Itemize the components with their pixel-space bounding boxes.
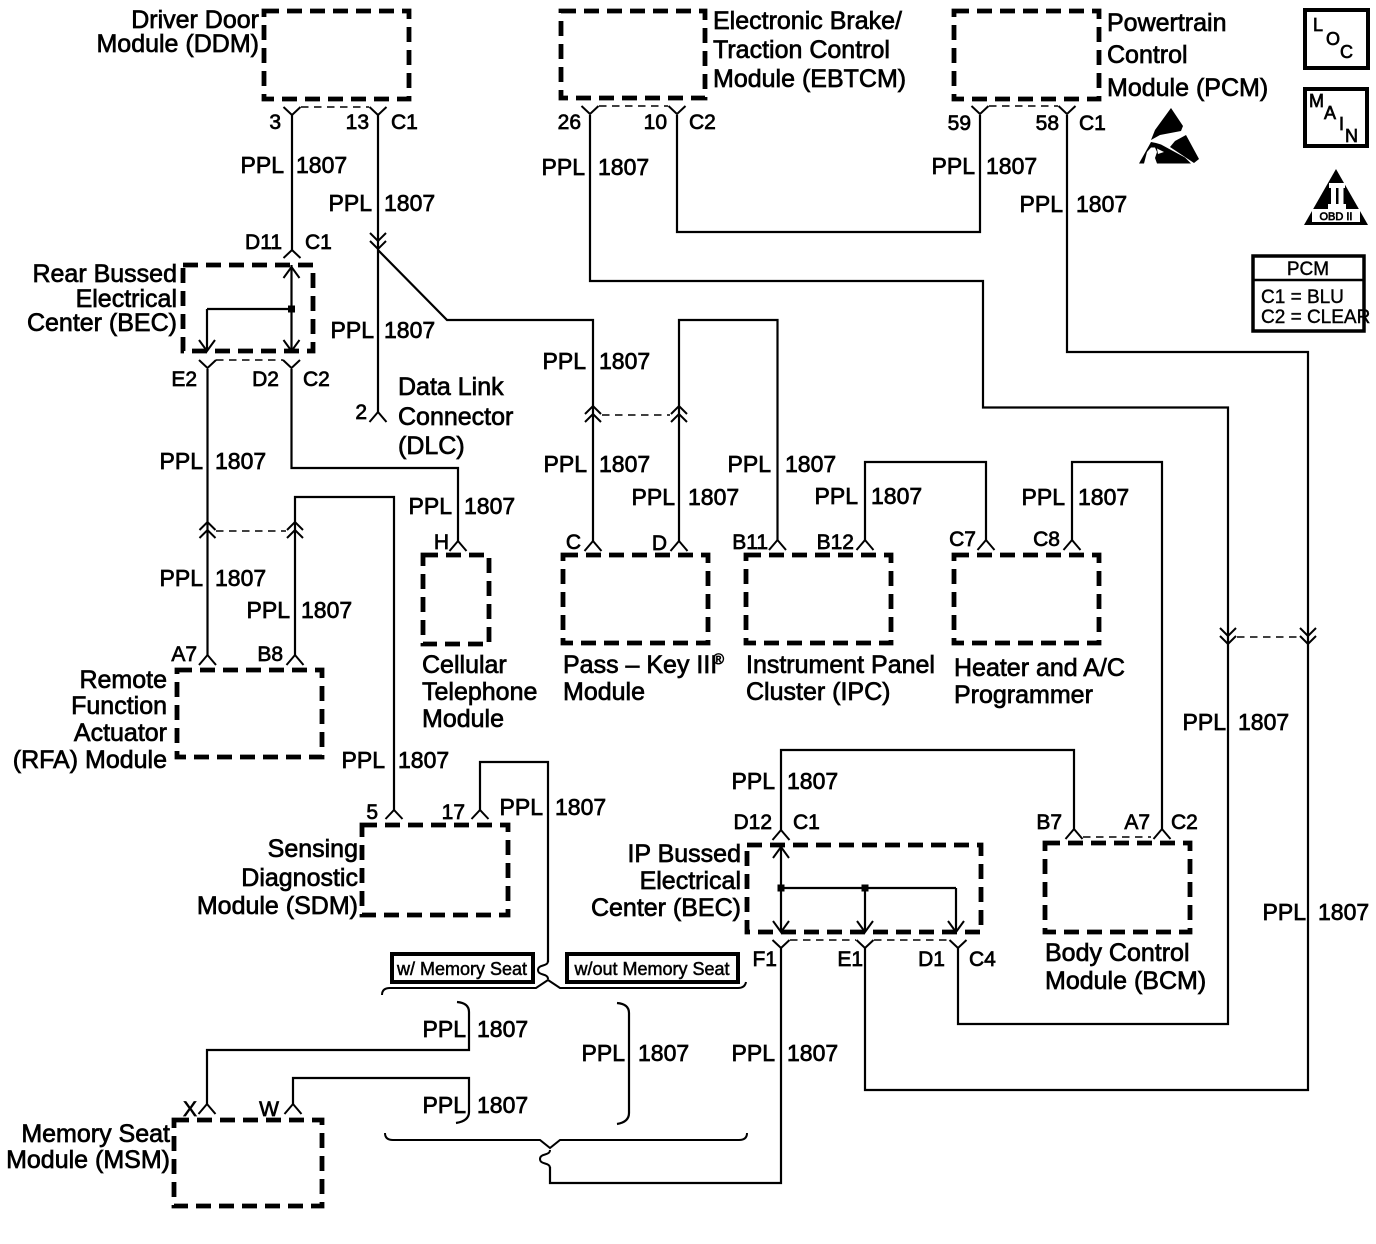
dashed connector line Rear BEC (216, 359, 283, 361)
module MSM box (174, 1120, 322, 1206)
wire Pass-Key D to IPC B11 (679, 320, 778, 541)
connector PCM pin58 (1059, 106, 1076, 114)
connector IP BEC E1 (857, 940, 874, 948)
wire EBTCM pin26 bus to IP BEC D1 (590, 115, 1228, 1024)
junction dot Rear BEC (288, 306, 295, 313)
svg-text:PPL: PPL (815, 483, 859, 509)
brace2 options merge (385, 1133, 747, 1148)
svg-text:(DLC): (DLC) (398, 432, 465, 460)
svg-text:PPL: PPL (732, 1040, 776, 1066)
dashed connector line PCM (989, 105, 1058, 107)
svg-text:Data Link: Data Link (398, 373, 504, 401)
svg-text:D: D (652, 532, 667, 555)
svg-text:D11: D11 (245, 231, 282, 254)
connector PCM pin59 (972, 106, 989, 114)
module Cellular Telephone box (423, 555, 489, 644)
svg-text:E2: E2 (171, 368, 197, 391)
Rear BEC internal bus (290, 265, 292, 351)
svg-text:PPL: PPL (241, 152, 285, 178)
connector IPC B11 (769, 540, 786, 550)
dashed inline link C-D (602, 414, 670, 416)
svg-text:PPL: PPL (582, 1040, 626, 1066)
module PCM box (954, 11, 1099, 99)
svg-text:B7: B7 (1036, 811, 1062, 834)
svg-text:1807: 1807 (555, 794, 606, 820)
wire PCM pin58 bus to IP BEC E1 (865, 115, 1308, 1090)
svg-text:Module (SDM): Module (SDM) (197, 892, 358, 920)
svg-text:A7: A7 (171, 643, 197, 666)
wire diagonal branch to Pass-Key C (378, 250, 593, 541)
svg-text:1807: 1807 (638, 1040, 689, 1066)
svg-text:C4: C4 (969, 948, 996, 971)
svg-text:C1: C1 (1079, 112, 1106, 135)
svg-text:PPL: PPL (500, 794, 544, 820)
svg-text:1807: 1807 (688, 484, 739, 510)
svg-text:Module: Module (422, 705, 504, 733)
connector BCM A7 (1154, 829, 1171, 839)
wire IPC B12 to Heater C7 (865, 462, 986, 541)
svg-text:1807: 1807 (787, 768, 838, 794)
connector EBTCM pin26 (582, 106, 599, 114)
svg-text:Function: Function (71, 692, 167, 720)
wire Heater C8 to BCM A7 (1072, 462, 1162, 829)
svg-text:PPL: PPL (423, 1016, 467, 1042)
connector RFA A7 (199, 655, 216, 665)
svg-text:C1 = BLU: C1 = BLU (1261, 287, 1344, 308)
connector RFA B8 (287, 655, 304, 665)
module IP BEC box (747, 845, 981, 932)
svg-text:X: X (183, 1098, 197, 1121)
svg-text:W: W (259, 1098, 279, 1121)
svg-text:Instrument Panel: Instrument Panel (746, 651, 935, 679)
connector SDM pin17 (472, 810, 489, 819)
svg-text:Module: Module (563, 678, 645, 706)
svg-text:Electrical: Electrical (640, 867, 741, 895)
svg-text:C1: C1 (391, 111, 418, 134)
junction dot IP BEC mid (862, 885, 869, 892)
wire SDM pin17 to brace1 center (480, 762, 548, 962)
svg-text:1807: 1807 (398, 747, 449, 773)
svg-text:1807: 1807 (215, 448, 266, 474)
svg-text:1807: 1807 (871, 483, 922, 509)
svg-text:10: 10 (644, 111, 667, 134)
svg-text:Telephone: Telephone (422, 678, 537, 706)
module RFA box (177, 670, 322, 757)
wire MSM W option path (293, 1078, 469, 1112)
svg-text:1807: 1807 (599, 451, 650, 477)
connector DLC pin2 (370, 412, 387, 422)
svg-text:PPL: PPL (329, 190, 373, 216)
svg-text:PPL: PPL (409, 493, 453, 519)
connector DDM pin13 (370, 107, 387, 115)
svg-text:3: 3 (269, 111, 281, 134)
svg-text:PPL: PPL (1183, 709, 1227, 735)
connector Pass-Key C (585, 541, 602, 551)
svg-text:1807: 1807 (598, 154, 649, 180)
svg-text:PPL: PPL (423, 1092, 467, 1118)
tilde on F1 return wire (540, 1150, 550, 1168)
connector Cellular H (450, 541, 467, 551)
svg-text:PPL: PPL (331, 317, 375, 343)
svg-text:L: L (1313, 15, 1323, 35)
svg-text:1807: 1807 (215, 565, 266, 591)
svg-text:PPL: PPL (632, 484, 676, 510)
svg-text:O: O (1326, 29, 1340, 49)
svg-text:1807: 1807 (599, 348, 650, 374)
inline connector chevrons C wire (585, 406, 601, 422)
svg-text:M: M (1309, 91, 1324, 111)
svg-text:1807: 1807 (296, 152, 347, 178)
svg-text:1807: 1807 (301, 597, 352, 623)
connector Heater C8 (1064, 540, 1081, 550)
inline connector chevrons DLC wire (370, 233, 386, 249)
svg-text:PPL: PPL (732, 768, 776, 794)
icon LOC box (1305, 10, 1368, 68)
connector SDM pin5 (386, 810, 403, 819)
svg-text:59: 59 (948, 112, 971, 135)
svg-text:PPL: PPL (160, 448, 204, 474)
dashed connector line BCM (1083, 836, 1151, 838)
arrow down IP BEC E1 (857, 921, 873, 932)
connector EBTCM pin10 (669, 106, 686, 114)
svg-text:5: 5 (366, 801, 378, 824)
dashed connector line EBTCM (599, 105, 668, 107)
svg-text:C7: C7 (949, 528, 976, 551)
svg-text:58: 58 (1036, 112, 1059, 135)
wire Rear BEC D2 to Cellular H (292, 369, 459, 541)
svg-text:1807: 1807 (477, 1092, 528, 1118)
svg-text:C1: C1 (305, 231, 332, 254)
svg-text:PPL: PPL (544, 451, 588, 477)
svg-text:Center (BEC): Center (BEC) (591, 894, 741, 922)
arrow down IP BEC D1 (948, 921, 964, 932)
svg-text:1807: 1807 (785, 451, 836, 477)
wire IP BEC F1 to brace2 center (550, 948, 781, 1183)
svg-text:1807: 1807 (384, 190, 435, 216)
connector Rear BEC E2 (199, 360, 216, 368)
svg-text:Memory Seat: Memory Seat (21, 1120, 170, 1148)
connector IP BEC D1 (950, 940, 967, 948)
svg-text:C2 = CLEAR: C2 = CLEAR (1261, 307, 1370, 328)
svg-text:A: A (1324, 103, 1336, 123)
wire BCM B7 to IP BEC D12 (781, 750, 1074, 830)
arrow down Rear BEC right (284, 340, 300, 351)
svg-text:Module (MSM): Module (MSM) (6, 1146, 170, 1174)
svg-text:Diagnostic: Diagnostic (241, 864, 358, 892)
dashed connector line DDM (301, 106, 369, 108)
svg-text:B11: B11 (732, 531, 768, 554)
svg-text:B8: B8 (257, 643, 283, 666)
svg-text:Module (DDM): Module (DDM) (96, 30, 259, 58)
curl top w/out bracket (617, 1003, 629, 1013)
svg-text:w/out Memory Seat: w/out Memory Seat (573, 959, 729, 979)
svg-text:PPL: PPL (342, 747, 386, 773)
svg-text:17: 17 (442, 801, 465, 824)
connector Rear BEC D11 (284, 250, 301, 258)
dashed inline link x1228-x1308 (1237, 636, 1299, 638)
svg-text:F1: F1 (752, 948, 777, 971)
connector MSM X (199, 1104, 216, 1114)
svg-text:Module (BCM): Module (BCM) (1045, 967, 1206, 995)
connector BCM B7 (1066, 829, 1083, 839)
svg-text:PPL: PPL (932, 153, 976, 179)
label box w/out Memory Seat (567, 954, 738, 982)
svg-text:D2: D2 (252, 368, 279, 391)
dashed inline link E2-B8 (216, 530, 286, 532)
svg-text:®: ® (713, 651, 724, 668)
svg-text:2: 2 (355, 401, 367, 424)
connector IPC B12 (857, 540, 874, 550)
legend PCM connector colors (1253, 256, 1364, 331)
svg-text:C: C (1340, 42, 1353, 62)
svg-text:13: 13 (346, 111, 369, 134)
module BCM box (1045, 843, 1190, 932)
module IPC box (746, 555, 891, 643)
svg-text:1807: 1807 (464, 493, 515, 519)
svg-text:Programmer: Programmer (954, 681, 1093, 709)
svg-text:PPL: PPL (1022, 484, 1066, 510)
connector DDM pin3 (284, 107, 301, 115)
svg-text:1807: 1807 (477, 1016, 528, 1042)
wire DDM pin13 to DLC pin2 (377, 115, 379, 412)
svg-text:Cluster (IPC): Cluster (IPC) (746, 678, 890, 706)
module Pass-Key III box (563, 555, 708, 643)
svg-text:C: C (566, 531, 581, 554)
svg-text:B12: B12 (817, 531, 854, 554)
arrow down Rear BEC left (199, 340, 215, 351)
svg-text:N: N (1345, 126, 1358, 146)
svg-text:Module (PCM): Module (PCM) (1107, 74, 1268, 102)
svg-text:PPL: PPL (543, 348, 587, 374)
connector Heater C7 (978, 540, 995, 550)
svg-text:PPL: PPL (1263, 899, 1307, 925)
svg-text:w/ Memory Seat: w/ Memory Seat (396, 959, 527, 979)
module EBTCM box (561, 11, 705, 98)
inline connector chevrons D wire (671, 406, 687, 422)
svg-text:PPL: PPL (160, 565, 204, 591)
module SDM box (362, 825, 508, 915)
svg-text:PPL: PPL (542, 154, 586, 180)
wire Rear BEC E2 to RFA A7 (206, 369, 208, 655)
label box w/ Memory Seat (392, 954, 533, 982)
connector Rear BEC D2 (283, 360, 300, 368)
inline connector chevrons bus x1228 (1220, 628, 1236, 644)
svg-text:1807: 1807 (1318, 899, 1369, 925)
curl bottom w/out bracket (617, 1113, 629, 1124)
svg-text:1807: 1807 (1076, 191, 1127, 217)
svg-text:E1: E1 (837, 948, 863, 971)
wire w/out memory seat bracket (628, 1013, 630, 1113)
svg-text:Cellular: Cellular (422, 651, 507, 679)
svg-text:H: H (434, 531, 449, 554)
connector IP BEC F1 (773, 940, 790, 948)
svg-text:Connector: Connector (398, 403, 513, 431)
curl bracket bottom W wire (456, 1112, 469, 1123)
dashed connector line IP BEC (790, 939, 856, 941)
module DDM box (264, 11, 409, 99)
svg-text:C1: C1 (793, 811, 820, 834)
svg-text:Powertrain: Powertrain (1107, 9, 1227, 37)
svg-text:C2: C2 (1171, 811, 1198, 834)
svg-text:C2: C2 (303, 368, 330, 391)
icon OBD II triangle (1304, 169, 1368, 225)
svg-text:PCM: PCM (1287, 259, 1329, 280)
svg-text:A7: A7 (1124, 811, 1150, 834)
svg-text:D12: D12 (733, 811, 772, 834)
svg-text:Heater and A/C: Heater and A/C (954, 654, 1125, 682)
module Rear BEC box (183, 265, 313, 351)
svg-text:1807: 1807 (1238, 709, 1289, 735)
arrow down IP BEC F1 (773, 921, 789, 932)
icon ESD symbol (1151, 108, 1183, 140)
svg-text:I: I (1339, 114, 1344, 134)
connector IP BEC D12 (773, 830, 790, 840)
brace1 options split (382, 980, 746, 995)
wire MSM X option path (207, 1012, 469, 1104)
svg-text:Traction Control: Traction Control (713, 36, 890, 64)
svg-text:Pass – Key III: Pass – Key III (563, 651, 717, 679)
svg-text:C8: C8 (1033, 528, 1060, 551)
svg-text:Control: Control (1107, 41, 1188, 69)
inline connector chevrons E2 wire (200, 522, 216, 538)
svg-text:C2: C2 (689, 111, 716, 134)
svg-text:IP Bussed: IP Bussed (627, 840, 741, 868)
svg-text:1807: 1807 (986, 153, 1037, 179)
svg-text:Remote: Remote (79, 666, 167, 694)
wire EBTCM pin10 to PCM pin59 (677, 115, 980, 232)
svg-text:Actuator: Actuator (74, 719, 167, 747)
svg-text:PPL: PPL (1020, 191, 1064, 217)
curl bracket top X wire (457, 1002, 469, 1012)
module Heater A/C Programmer box (954, 555, 1099, 643)
svg-text:Module (EBTCM): Module (EBTCM) (713, 65, 906, 93)
svg-text:PPL: PPL (728, 451, 772, 477)
icon MAIN box (1305, 89, 1367, 146)
tilde on SDM17 wire (538, 961, 548, 979)
svg-text:Rear Bussed: Rear Bussed (32, 260, 177, 288)
svg-text:Body Control: Body Control (1045, 939, 1190, 967)
arrow up IP BEC (773, 847, 789, 858)
svg-text:Electronic Brake/: Electronic Brake/ (713, 7, 902, 35)
svg-text:1807: 1807 (384, 317, 435, 343)
wire RFA B8 to SDM pin5 (295, 497, 394, 810)
svg-text:26: 26 (558, 111, 581, 134)
IP BEC internal bus (780, 845, 782, 932)
arrow up Rear BEC (284, 267, 300, 278)
svg-text:1807: 1807 (787, 1040, 838, 1066)
inline connector chevrons B8 wire (287, 522, 303, 538)
junction dot IP BEC left (778, 885, 785, 892)
svg-text:D1: D1 (918, 948, 945, 971)
svg-text:1807: 1807 (1078, 484, 1129, 510)
wire DDM pin3 to Rear BEC D11 (291, 115, 293, 250)
svg-text:Sensing: Sensing (268, 835, 358, 863)
svg-text:PPL: PPL (247, 597, 291, 623)
connector Pass-Key D (671, 541, 688, 551)
svg-text:Center (BEC): Center (BEC) (27, 309, 177, 337)
svg-text:(RFA) Module: (RFA) Module (13, 746, 167, 774)
svg-text:OBD II: OBD II (1319, 211, 1352, 223)
inline connector chevrons bus x1308 (1300, 628, 1316, 644)
connector MSM W (285, 1104, 302, 1114)
